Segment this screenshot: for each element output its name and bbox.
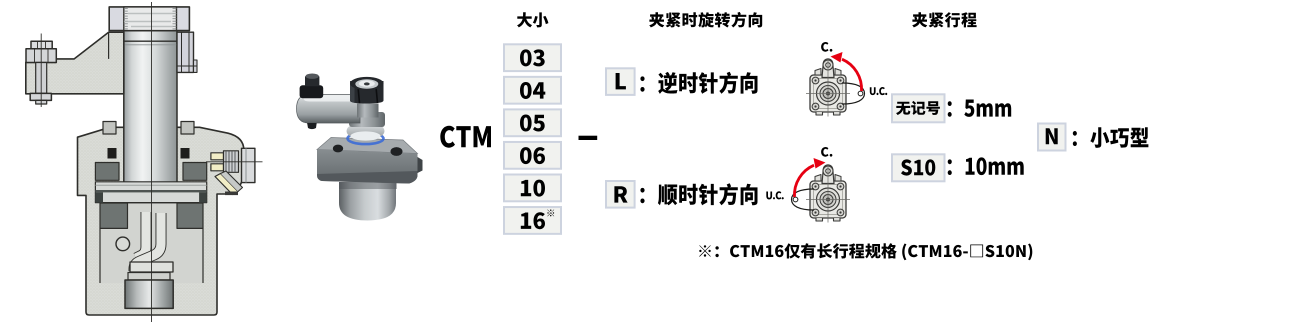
- center rings: [817, 82, 840, 105]
- R option box: [606, 181, 635, 208]
- rod: [124, 31, 177, 203]
- photo hex nut: [350, 81, 384, 104]
- photo body block top face: [317, 138, 418, 154]
- inner cavity: [100, 203, 203, 283]
- top view diagram R (clockwise): [792, 158, 851, 223]
- size box 03: [504, 44, 561, 71]
- bolt centerline: [40, 34, 42, 108]
- unclamp arm silhouette: [842, 83, 865, 104]
- header: clamp stroke: [912, 12, 976, 27]
- red rotation arrow: [842, 59, 862, 91]
- L option box: [606, 68, 635, 95]
- port plug head: [242, 148, 255, 182]
- clamp arm: [26, 32, 124, 94]
- unclamp arm silhouette: [792, 189, 815, 210]
- housing body: [78, 127, 244, 315]
- size box 05: [504, 109, 561, 136]
- rod seals: [108, 148, 117, 159]
- arm up: [822, 59, 834, 78]
- red rotation arrow: [794, 165, 814, 197]
- corner bolts: [812, 183, 819, 190]
- lower plug cylinder: [125, 280, 173, 308]
- main centerline: [151, 2, 153, 322]
- ball detent: [116, 237, 130, 251]
- arm clamp hub right: [177, 32, 194, 72]
- photo body block front face: [317, 150, 418, 184]
- label U.C. for R diagram: [766, 191, 784, 199]
- dash after CTM: [579, 136, 598, 140]
- label U.C. for L diagram: [870, 87, 888, 95]
- center rings: [817, 188, 840, 211]
- photo arm bolt: [300, 85, 324, 98]
- N description: compact type: [1073, 127, 1149, 148]
- photo arm: [297, 95, 361, 124]
- top view body: [810, 181, 846, 218]
- gland retainers: [103, 122, 116, 135]
- centerlines: [827, 58, 829, 117]
- 5mm label: [948, 100, 1012, 117]
- no-mark option box: [892, 94, 945, 122]
- label C. for R diagram: [821, 147, 832, 157]
- N option box: [1038, 124, 1066, 151]
- left chamber block: [100, 203, 128, 228]
- product photo: swing clamp 3D view: [297, 74, 423, 221]
- photo side nub: [418, 157, 423, 173]
- top view body: [810, 75, 846, 112]
- corner bolts: [812, 77, 819, 84]
- top cap nut: [109, 7, 189, 31]
- footnote: [699, 243, 1032, 260]
- S10 option box: [892, 154, 945, 181]
- photo dome with blue seal: [348, 133, 384, 144]
- swing link S-curve right: [134, 213, 161, 271]
- bottom tabs: [816, 218, 840, 221]
- label C. for L diagram: [821, 42, 832, 52]
- swing link S-curve left: [136, 212, 146, 258]
- lower plug collar: [128, 273, 170, 281]
- size box 04: [504, 77, 561, 104]
- CTM model text: [440, 126, 491, 148]
- photo collar under column: [349, 112, 385, 127]
- arm base ears: [815, 69, 841, 76]
- rod bushings: [95, 163, 119, 181]
- size box 10: [504, 175, 561, 202]
- drilled passage: [215, 174, 238, 195]
- top view diagram L (counterclockwise): [806, 52, 865, 117]
- size box 06: [504, 142, 561, 169]
- header: size: [517, 12, 548, 27]
- lower bracket: [130, 262, 173, 272]
- port fitting brass seats: [211, 151, 239, 173]
- port centerline: [206, 161, 263, 163]
- arm contact bolt: [26, 41, 56, 104]
- right chamber block: [177, 203, 203, 228]
- arm base ears: [815, 175, 841, 182]
- chamber lower walls: [100, 228, 203, 283]
- photo body holes: [333, 145, 343, 153]
- header: rotation direction: [649, 12, 762, 28]
- photo top washer: [350, 77, 384, 90]
- R description: clockwise: [640, 183, 757, 205]
- size box 16: [504, 207, 561, 234]
- photo column: [357, 104, 379, 118]
- L description: counterclockwise: [640, 72, 757, 94]
- piston: [95, 182, 206, 203]
- arm up: [822, 165, 834, 184]
- 10mm label: [948, 157, 1024, 175]
- centerlines: [827, 164, 829, 223]
- photo bottom cylinder: [339, 182, 396, 221]
- bottom tabs: [816, 112, 840, 115]
- cross-section drawing of swing clamp: [26, 2, 263, 322]
